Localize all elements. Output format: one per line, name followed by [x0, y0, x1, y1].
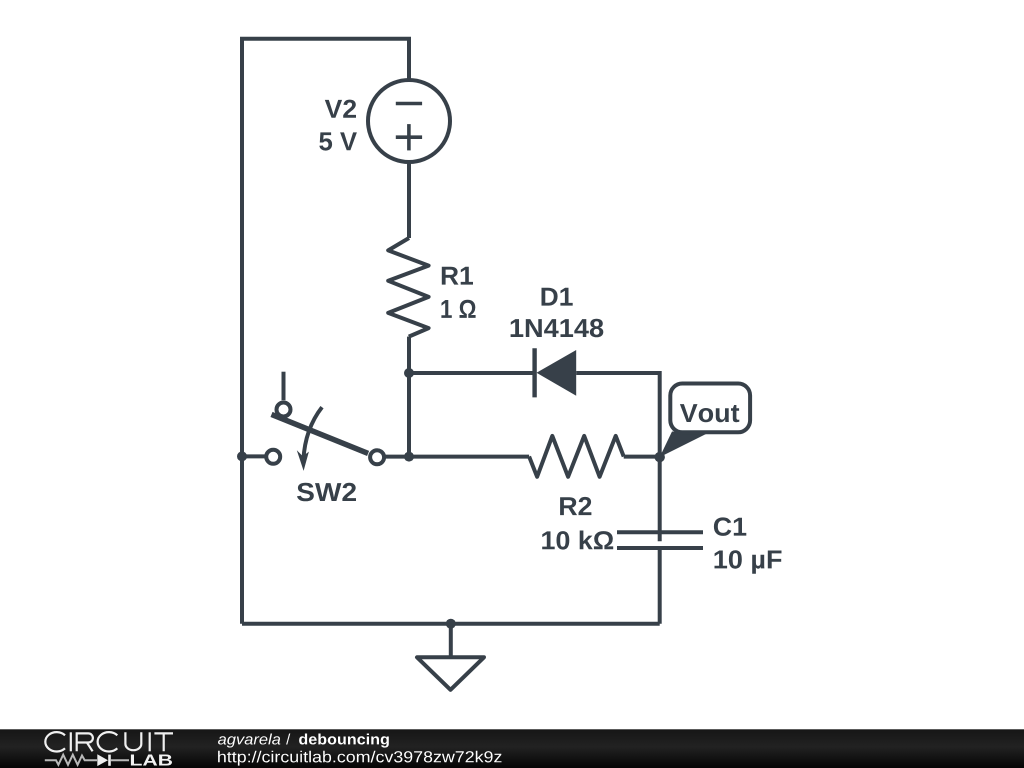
SW2 top throw terminal [277, 403, 291, 417]
logo CIRCUIT letter U [125, 732, 141, 750]
wire: R2 right to node Vout [624, 455, 660, 459]
diode D1 cathode bar [532, 348, 536, 397]
D1 value 1N4148 [511, 319, 604, 338]
V2 value 5 V [319, 132, 357, 150]
wire: node A down to switch output node [407, 373, 411, 457]
node ground junction [446, 619, 456, 629]
R1 label [442, 267, 473, 285]
Vout flag box [670, 384, 750, 433]
switch SW2 top throw stub [282, 372, 286, 401]
wire: V2 bottom to R1 top [407, 162, 411, 239]
wire: left rail, top rail, lead to V2 top [242, 39, 409, 624]
voltage source V2 [368, 80, 450, 162]
logo CIRCUIT letter R [77, 733, 93, 751]
R2 value 10 kohm [542, 531, 613, 550]
logo LAB [131, 755, 172, 766]
logo CIRCUIT letter I2 [149, 732, 151, 751]
SW2 left pole terminal [266, 450, 280, 464]
logo CIRCUIT letter I [70, 732, 72, 751]
capacitor C1 top plate [617, 530, 703, 534]
node at switch output junction [404, 452, 414, 462]
node Vout junction dot [655, 452, 665, 462]
wire: capacitor bottom plate to bottom rail [658, 548, 662, 624]
logo diode cathode bar [108, 755, 111, 766]
footer title debouncing [299, 734, 389, 748]
C1 label [714, 517, 746, 536]
C1 value 10 uF [715, 550, 782, 574]
SW2 actuation arc [303, 407, 322, 460]
logo CIRCUIT letter C2 [98, 732, 118, 751]
wire: left rail to switch pole [242, 454, 266, 458]
ground triangle [417, 657, 484, 690]
wire: right rail down to capacitor top plate [658, 371, 662, 541]
wire: switch right terminal to R2 [384, 455, 529, 459]
node on left rail [237, 451, 247, 461]
logo CIRCUIT letter C [45, 732, 65, 751]
footer separator slash [286, 734, 290, 745]
capacitor C1 bottom plate [617, 546, 703, 550]
Vout label text [680, 404, 739, 422]
footer bar [0, 729, 1024, 768]
footer url [218, 751, 501, 766]
node A junction dot at R1 bottom [404, 368, 414, 378]
logo resistor zigzag [45, 755, 97, 765]
V2 label [325, 100, 356, 118]
wire: R1 bottom to node A [407, 337, 411, 373]
SW2 right terminal [370, 450, 384, 464]
R2 label [560, 497, 591, 515]
D1 label [542, 288, 573, 306]
ground stem [449, 624, 453, 658]
SW2 lever [272, 414, 369, 453]
SW2 arrowhead [297, 450, 309, 471]
wire: bottom rail [242, 622, 660, 626]
SW2 label [297, 483, 356, 502]
logo diode triangle [97, 754, 108, 766]
logo wire to LAB [111, 759, 129, 761]
wire: node A to diode cathode [409, 371, 535, 375]
Vout flag pointer [660, 432, 707, 458]
wire: diode anode to right rail [576, 371, 660, 375]
resistor R2 [529, 436, 624, 477]
resistor R1 [388, 238, 428, 337]
footer author agvarela [218, 734, 280, 748]
logo CIRCUIT letter T [154, 733, 173, 751]
R1 value 1 ohm [441, 300, 475, 318]
diode D1 triangle [537, 350, 577, 396]
